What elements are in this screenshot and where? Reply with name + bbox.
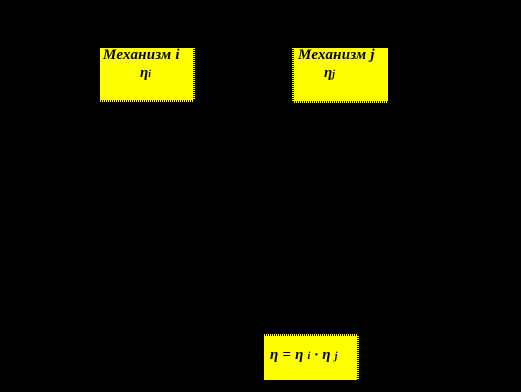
- block Механизм j: [294, 48, 388, 101]
- formula box eta = eta_i * eta_j: [264, 336, 357, 380]
- block Механизм i: [100, 48, 193, 100]
